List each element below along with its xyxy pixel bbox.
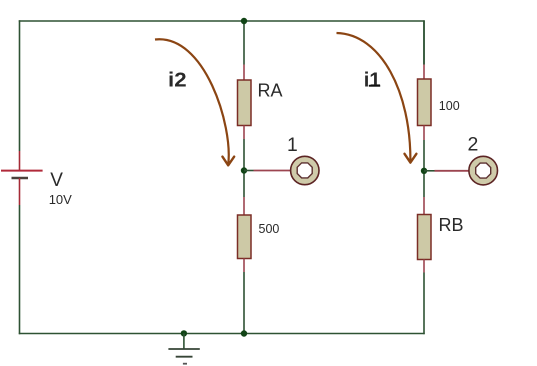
wire top: [19, 20, 425, 22]
ground stub: [183, 333, 185, 349]
probe 2 terminal: [469, 156, 498, 185]
resistor 500: [238, 215, 252, 259]
node dot bottom middle: [241, 330, 247, 336]
resistor 500 pin bottom: [243, 259, 245, 273]
wire 500 to bottom: [243, 272, 245, 334]
resistor RB pin top: [423, 197, 425, 215]
probe 1 terminal: [291, 156, 319, 184]
svg-text:100: 100: [439, 99, 460, 113]
battery V pin bottom: [19, 178, 21, 205]
resistor 100 pin bottom: [423, 126, 425, 141]
current arrow i1: [337, 33, 411, 162]
ground bar 3: [183, 363, 187, 365]
resistor RB pin bottom: [423, 260, 425, 273]
ground node dot: [181, 330, 187, 336]
resistor RB: [418, 215, 432, 260]
wire right upper: [423, 20, 425, 64]
wire bottom: [19, 333, 425, 335]
wire 100 to node 2: [423, 140, 425, 197]
resistor 500 pin top: [243, 197, 245, 215]
svg-text:i2: i2: [168, 69, 187, 92]
svg-text:RB: RB: [439, 215, 464, 235]
resistor 100 pin top: [423, 65, 425, 80]
probe 2 pin: [435, 170, 470, 172]
current arrow i2: [155, 39, 229, 164]
wire left lower: [19, 205, 21, 334]
svg-text:V: V: [50, 170, 63, 191]
wire node 2 stub: [424, 170, 435, 172]
svg-text:RA: RA: [258, 80, 283, 100]
probe 2 inner octagon: [476, 163, 491, 178]
svg-text:10V: 10V: [49, 192, 72, 207]
wire right branch upper: [423, 21, 425, 65]
probe 1 pin: [254, 170, 292, 172]
ground bar 1: [168, 348, 199, 350]
svg-text:2: 2: [468, 134, 479, 156]
svg-text:500: 500: [259, 222, 280, 236]
wire node 1 stub: [244, 170, 254, 172]
ground bar 2: [176, 356, 193, 358]
battery V pin top: [19, 151, 21, 171]
wire RB to bottom: [423, 273, 425, 335]
node 1 dot: [241, 167, 247, 173]
battery V short plate: [12, 177, 29, 179]
wire middle branch upper: [243, 21, 245, 65]
resistor RA pin top: [243, 65, 245, 81]
battery V long plate: [1, 170, 43, 172]
resistor RA pin bottom: [243, 126, 245, 140]
wire left upper: [19, 20, 21, 151]
svg-text:i1: i1: [364, 69, 381, 92]
resistor 100: [418, 79, 432, 126]
node dot top: [241, 18, 247, 24]
node 2 dot: [421, 168, 427, 174]
svg-text:1: 1: [287, 135, 298, 156]
probe 1 inner octagon: [297, 163, 312, 178]
resistor RA: [238, 80, 252, 126]
wire RA to node 1: [243, 139, 245, 197]
